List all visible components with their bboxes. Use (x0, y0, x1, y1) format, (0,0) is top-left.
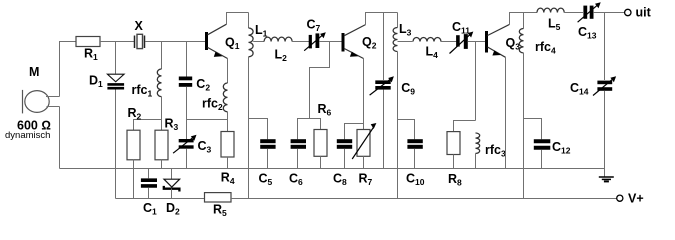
choke rfc1 (132, 42, 162, 120)
svg-text:X: X (135, 19, 144, 33)
wire mic top to R1 (60, 42, 77, 97)
capacitor C1 (141, 169, 157, 217)
wire C11 to Q3 base (468, 41, 485, 43)
inductor L1 (249, 13, 268, 199)
trimmer capacitor C13 (578, 2, 601, 40)
resistor R2 (127, 106, 142, 160)
ground rail (60, 168, 605, 170)
choke rfc3 (476, 133, 506, 169)
wire Q2 emitter column (363, 59, 365, 124)
ground symbol (599, 169, 614, 182)
svg-text:uit: uit (636, 6, 652, 20)
transistor Q2 (343, 25, 377, 59)
capacitor C2 (179, 42, 211, 140)
inductor L2 (264, 37, 292, 63)
svg-text:V+: V+ (628, 192, 644, 206)
trimmer capacitor C11 (450, 20, 474, 54)
wire bias node jog to R2 (134, 120, 162, 131)
wire mic bottom to ground rail (59, 107, 61, 169)
wire rfc4 jog to C12 (524, 119, 542, 140)
wire C7 to Q2 base (319, 41, 342, 43)
capacitor C8 (333, 141, 352, 187)
crystal X (135, 19, 145, 49)
capacitor C10 (406, 141, 425, 187)
zener diode D2 (164, 169, 180, 217)
wire R2 bottom to V+ segment (133, 160, 135, 199)
wire C10 jog from L3 column (398, 120, 415, 140)
wire C13 to uit terminal (594, 12, 625, 14)
V+ rail left segment (116, 198, 205, 200)
preset resistor R7 (352, 123, 376, 187)
svg-text:dynamisch: dynamisch (5, 130, 50, 141)
wire L4 to C11 (441, 41, 458, 43)
wire L5 to C13 (564, 12, 583, 14)
supply terminal V+ (617, 192, 644, 206)
microphone M (23, 90, 60, 114)
trimmer capacitor C14 (570, 13, 616, 169)
trimmer capacitor C7 (304, 18, 326, 51)
wire R1 to crystal X (100, 41, 134, 43)
capacitor C12 (534, 140, 571, 169)
capacitor C6 (289, 141, 306, 187)
inductor L5 (537, 8, 564, 32)
svg-text:M: M (29, 65, 39, 79)
wire emitter jog to C8 (345, 124, 364, 140)
wire Q2 bias riser (310, 42, 330, 119)
wire Q2 collector riser and top rail (366, 13, 398, 25)
inductor L4 (413, 38, 441, 61)
resistor R6 (314, 102, 332, 169)
wire X to Q1 base (145, 41, 205, 43)
trimmer capacitor C9 (370, 13, 416, 169)
trimmer capacitor C3 (173, 135, 211, 169)
wire Q3 bias riser (475, 42, 477, 121)
transistor Q3 (487, 24, 521, 57)
inductor L3 (393, 13, 412, 199)
capacitor C5 (259, 141, 276, 187)
varicap diode D1 (89, 42, 124, 199)
resistor R3 (155, 117, 179, 169)
resistor R1 (76, 37, 100, 63)
output terminal uit (625, 6, 652, 20)
wire C2/C3 tap to emitter node (187, 119, 228, 121)
wire bias bar C6/R6 (298, 119, 321, 140)
choke rfc2 (202, 59, 228, 132)
V+ rail right segment (231, 198, 617, 200)
resistor R5 (205, 193, 232, 218)
wire Q3 emitter column to ground (505, 57, 507, 168)
wire L1 tap to L2 (253, 41, 264, 43)
transistor Q1 (207, 24, 240, 58)
wire L3 tap to L4 (398, 41, 413, 43)
wire bias bar R8/rfc3 (454, 121, 476, 132)
choke rfc4 (519, 13, 556, 199)
wire C5 jog from L1 column (249, 119, 268, 140)
resistor R4 (221, 132, 235, 187)
resistor R8 (447, 132, 462, 188)
wire L2 to C7 (292, 41, 310, 43)
wire Q1 collector riser and top rail (227, 13, 249, 25)
wire Q3 collector riser and top rail (510, 13, 538, 25)
